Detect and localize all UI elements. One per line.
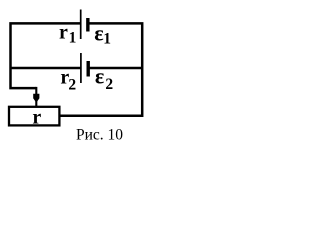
svg-text:r: r	[59, 21, 68, 43]
svg-text:1: 1	[69, 29, 77, 46]
svg-text:r: r	[32, 107, 41, 129]
svg-text:ε: ε	[95, 63, 104, 88]
svg-text:2: 2	[68, 76, 76, 93]
svg-text:2: 2	[105, 76, 113, 93]
svg-text:1: 1	[103, 31, 111, 48]
svg-text:Рис. 10: Рис. 10	[76, 126, 123, 143]
